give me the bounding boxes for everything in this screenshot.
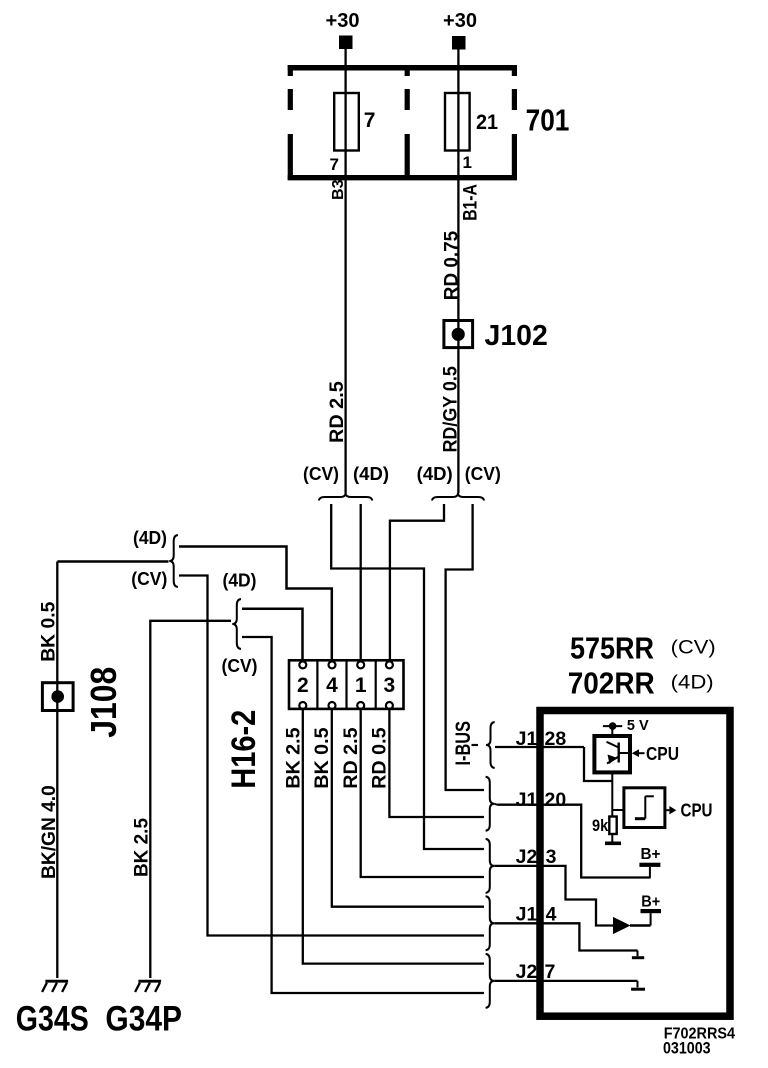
svg-text:CPU: CPU xyxy=(646,744,679,764)
svg-text:J108: J108 xyxy=(83,667,124,738)
svg-text:28: 28 xyxy=(545,728,567,750)
svg-text:(CV): (CV) xyxy=(222,656,258,676)
svg-text:B1-A: B1-A xyxy=(461,184,482,221)
svg-text:1: 1 xyxy=(463,153,472,172)
svg-text:7: 7 xyxy=(545,961,556,983)
svg-text:+30: +30 xyxy=(443,10,477,32)
svg-text:B+: B+ xyxy=(641,846,661,863)
svg-text:2: 2 xyxy=(297,674,309,697)
svg-text:(CV): (CV) xyxy=(131,569,167,589)
svg-text:H16-2: H16-2 xyxy=(225,710,263,789)
svg-text:4: 4 xyxy=(326,674,338,697)
svg-text:702RR: 702RR xyxy=(568,665,655,700)
svg-text:J2: J2 xyxy=(516,846,538,868)
svg-text:+30: +30 xyxy=(326,10,360,32)
svg-text:(4D): (4D) xyxy=(671,673,714,694)
svg-text:G34S: G34S xyxy=(16,999,89,1038)
svg-text:B+: B+ xyxy=(641,894,660,911)
svg-text:J1: J1 xyxy=(516,728,538,750)
svg-text:J1: J1 xyxy=(516,904,538,926)
svg-text:7: 7 xyxy=(364,109,376,132)
svg-text:20: 20 xyxy=(545,789,567,811)
svg-text:RD 0.5: RD 0.5 xyxy=(370,727,391,789)
svg-text:031003: 031003 xyxy=(663,1040,711,1058)
svg-text:BK 2.5: BK 2.5 xyxy=(132,818,153,877)
svg-text:(CV): (CV) xyxy=(465,464,501,484)
svg-text:(4D): (4D) xyxy=(133,528,167,548)
svg-text:5 V: 5 V xyxy=(627,717,649,734)
svg-text:J1: J1 xyxy=(516,789,538,811)
svg-text:RD/GY 0.5: RD/GY 0.5 xyxy=(441,366,462,453)
svg-text:9k: 9k xyxy=(592,816,609,835)
svg-text:3: 3 xyxy=(546,846,557,868)
svg-text:21: 21 xyxy=(476,111,498,134)
svg-text:G34P: G34P xyxy=(105,999,182,1038)
svg-text:(4D): (4D) xyxy=(353,464,389,484)
svg-text:RD 2.5: RD 2.5 xyxy=(327,381,348,443)
svg-text:RD 2.5: RD 2.5 xyxy=(341,727,362,789)
svg-text:4: 4 xyxy=(546,904,557,926)
svg-text:575RR: 575RR xyxy=(570,631,654,666)
svg-text:(CV): (CV) xyxy=(303,464,339,484)
svg-text:BK/GN 4.0: BK/GN 4.0 xyxy=(39,785,60,879)
svg-text:BK 2.5: BK 2.5 xyxy=(284,727,305,789)
svg-text:7: 7 xyxy=(330,155,339,174)
svg-text:BK 0.5: BK 0.5 xyxy=(39,601,60,662)
svg-text:701: 701 xyxy=(526,102,570,137)
svg-text:(CV): (CV) xyxy=(671,638,716,659)
svg-text:RD 0.75: RD 0.75 xyxy=(441,230,462,300)
svg-text:I-BUS: I-BUS xyxy=(452,721,475,766)
svg-text:J2: J2 xyxy=(516,961,538,983)
svg-text:3: 3 xyxy=(384,674,396,697)
svg-text:(4D): (4D) xyxy=(417,464,453,484)
svg-text:BK 0.5: BK 0.5 xyxy=(312,727,333,789)
svg-text:(4D): (4D) xyxy=(223,571,257,591)
svg-text:CPU: CPU xyxy=(681,801,713,821)
svg-text:J102: J102 xyxy=(485,320,548,352)
svg-text:1: 1 xyxy=(355,674,367,697)
